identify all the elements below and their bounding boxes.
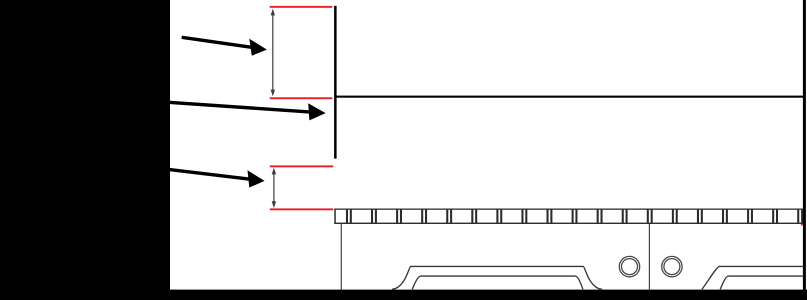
red extent line (dim 2 upper) [270, 165, 333, 167]
rail slot bar pairs [346, 209, 803, 224]
receiver seam line (center descender) [648, 224, 650, 290]
left plateau inner outline [412, 276, 583, 289]
red extent line top (dim 1 upper) [270, 6, 333, 8]
receiver seam line (left descender) [340, 224, 342, 290]
red extent line (dim 1 lower) [270, 97, 333, 99]
leader arrow A1 [182, 37, 267, 55]
dimension arrow D1 (vertical double-headed) [271, 9, 275, 97]
red fleck near rail right end [801, 224, 803, 226]
black masked region (left) [0, 0, 170, 300]
vertical rail-face line [334, 6, 337, 159]
dimension arrow D2 (vertical double-headed) [272, 168, 276, 209]
right vertical border line [803, 0, 806, 290]
bottom black bar [0, 290, 807, 300]
picatinny rail band outline [334, 209, 803, 225]
right plateau outer outline [702, 266, 804, 289]
long horizontal receiver top line [335, 96, 804, 98]
left plateau outer outline [392, 266, 602, 289]
leader arrow A3 [169, 169, 265, 187]
right plateau inner outline [720, 276, 803, 289]
right pin hole (double circle) [662, 256, 682, 276]
left pin hole (double circle) [619, 256, 639, 276]
leader arrow A2 [169, 102, 326, 120]
red extent line (dim 2 lower) [270, 208, 333, 210]
